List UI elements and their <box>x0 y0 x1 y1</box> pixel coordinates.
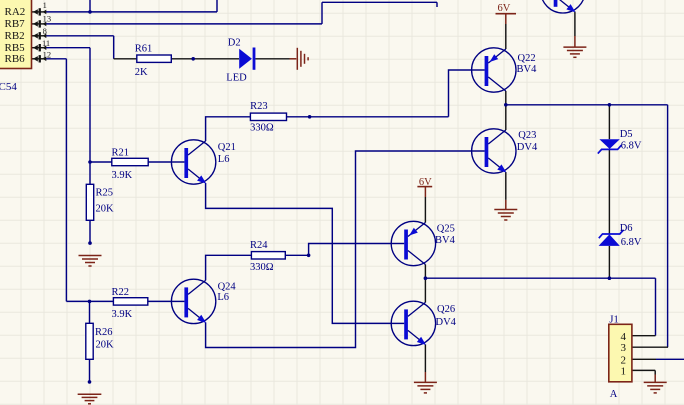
svg-text:6V: 6V <box>498 3 511 14</box>
svg-text:BV4: BV4 <box>517 64 538 75</box>
svg-text:DV4: DV4 <box>517 142 538 153</box>
svg-text:Q21: Q21 <box>218 142 236 153</box>
svg-text:6V: 6V <box>419 177 432 188</box>
svg-text:20K: 20K <box>96 204 115 215</box>
svg-text:Q23: Q23 <box>518 130 536 141</box>
svg-text:L6: L6 <box>218 154 230 165</box>
svg-text:RA2: RA2 <box>5 6 26 18</box>
svg-text:L6: L6 <box>217 292 229 303</box>
svg-text:Q25: Q25 <box>437 223 455 234</box>
svg-text:A: A <box>610 389 618 400</box>
svg-text:330Ω: 330Ω <box>250 262 274 273</box>
svg-text:RB7: RB7 <box>5 18 26 30</box>
svg-text:R26: R26 <box>95 327 113 338</box>
svg-text:20K: 20K <box>96 339 115 350</box>
svg-text:RB6: RB6 <box>5 53 26 65</box>
svg-text:R22: R22 <box>112 287 130 298</box>
svg-text:LED: LED <box>226 72 247 83</box>
svg-text:6.8V: 6.8V <box>621 237 642 248</box>
svg-text:D2: D2 <box>228 37 241 48</box>
svg-text:DV4: DV4 <box>436 317 457 328</box>
svg-text:1: 1 <box>43 0 47 10</box>
svg-text:R23: R23 <box>250 101 268 112</box>
svg-text:R21: R21 <box>112 148 130 159</box>
svg-text:J1: J1 <box>609 315 618 326</box>
svg-text:R61: R61 <box>135 43 153 54</box>
svg-text:3.9K: 3.9K <box>112 309 133 320</box>
svg-text:D5: D5 <box>620 129 633 140</box>
svg-text:Q26: Q26 <box>437 304 455 315</box>
svg-text:2: 2 <box>621 354 627 366</box>
svg-text:R24: R24 <box>250 240 268 251</box>
svg-text:Q22: Q22 <box>518 53 536 64</box>
svg-text:3.9K: 3.9K <box>112 170 133 181</box>
svg-text:RB2: RB2 <box>5 30 25 42</box>
svg-text:BV4: BV4 <box>435 235 456 246</box>
svg-text:D6: D6 <box>620 223 633 234</box>
svg-text:3: 3 <box>621 342 627 354</box>
svg-text:11: 11 <box>42 38 50 48</box>
svg-text:R25: R25 <box>96 187 114 198</box>
svg-text:13: 13 <box>43 13 52 23</box>
svg-text:8: 8 <box>43 26 47 36</box>
svg-text:2K: 2K <box>135 67 148 78</box>
svg-text:1: 1 <box>621 366 627 378</box>
svg-text:12: 12 <box>43 49 52 59</box>
svg-text:C54: C54 <box>0 81 17 93</box>
svg-text:6.8V: 6.8V <box>621 141 642 152</box>
svg-text:Q24: Q24 <box>218 282 237 293</box>
svg-text:330Ω: 330Ω <box>250 122 274 133</box>
